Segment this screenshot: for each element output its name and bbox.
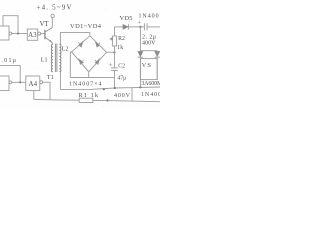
diode VD3 (bottom-left edge) [79, 59, 84, 65]
diode VD4 (bottom-right edge) [95, 59, 100, 65]
bottom bus [60, 87, 160, 90]
svg-text:1N4007: 1N4007 [141, 92, 160, 98]
svg-text:1N4007: 1N4007 [139, 14, 161, 20]
svg-text:+4. 5~9V: +4. 5~9V [37, 4, 72, 12]
svg-text:A4: A4 [29, 80, 38, 88]
svg-text:T1: T1 [47, 74, 54, 81]
svg-text:*: * [109, 36, 113, 45]
resistor R2 [112, 36, 116, 46]
gate A4 [26, 76, 43, 91]
node J6 (bus x140) [139, 86, 141, 88]
wire VS left branch upper [139, 27, 141, 51]
wire A2 output to A4 input [12, 81, 26, 83]
svg-text:3A600M: 3A600M [141, 81, 160, 87]
capacitor C2 [111, 68, 118, 71]
svg-text:VS: VS [142, 62, 152, 69]
wire R2 bottom to C2 [114, 52, 116, 67]
transformer core [55, 44, 57, 72]
svg-text:R1 1k: R1 1k [79, 92, 99, 99]
wire A3 output to VT base [41, 33, 45, 35]
thyristor VS box [140, 59, 157, 80]
svg-text:VD5: VD5 [120, 15, 133, 22]
bridge rectifier VD1-VD4 diamond [72, 36, 107, 72]
wire A4 ground pin down [33, 91, 35, 100]
svg-text:1N4007×4: 1N4007×4 [69, 81, 102, 87]
wire L2 top to bridge top vertex [60, 33, 89, 44]
wire A4 output down to R1 rail [43, 82, 50, 100]
scan speckle noise [9, 8, 139, 107]
wire VD5 to C1 [128, 26, 144, 28]
wire VT collector to power terminal [51, 18, 53, 28]
wire VS left branch lower to bus [139, 57, 141, 87]
wire A1 output to A3 input [12, 33, 27, 35]
diode VD2 (top-right edge) [95, 42, 100, 48]
svg-text:+: + [109, 62, 113, 69]
capacitor C1 2.2u 400V [144, 23, 147, 30]
svg-text:47μ: 47μ [117, 75, 126, 81]
svg-text:+: + [138, 20, 142, 26]
svg-text:VD1~VD4: VD1~VD4 [70, 23, 102, 30]
wire VT emitter to L1 top [51, 43, 53, 45]
wire C2 bottom to bus [114, 70, 116, 88]
power terminal circle [51, 14, 54, 17]
node J5 (bus x114.5) [114, 87, 116, 89]
svg-text:2. 2μ: 2. 2μ [142, 35, 156, 41]
wire bridge bottom vertex down [88, 72, 90, 78]
wire bridge right vertex to R2 column [107, 51, 115, 53]
wire R2 column top corner [114, 46, 116, 52]
wire bridge left vertex down [70, 52, 71, 78]
svg-text:R2: R2 [118, 36, 125, 42]
gate A2 (partially cut at left edge) [0, 76, 12, 91]
wire R2 top to top rail corner [114, 27, 116, 36]
diode VD5 [123, 24, 128, 29]
wire bus jog to R1 rail [131, 88, 133, 102]
node J8 [19, 81, 21, 83]
diode VD6 (left branch) [138, 51, 143, 57]
top rail with VD5 [115, 26, 123, 28]
wire VS top connector [140, 50, 157, 52]
node J3 (VS branch from top rail) [139, 26, 141, 28]
node J1 [17, 32, 19, 34]
wire C1 to right edge [147, 26, 160, 28]
svg-text:400V: 400V [142, 41, 156, 47]
wire feedback row1 [3, 16, 18, 34]
node J2 (R2 column at y52) [113, 51, 115, 53]
svg-text:VT: VT [40, 20, 50, 28]
svg-text:L1: L1 [41, 56, 48, 63]
gate A1 (partially cut at left edge) [0, 26, 12, 40]
svg-text:400V: 400V [114, 93, 131, 99]
svg-text:1k: 1k [117, 45, 123, 51]
gate A3 [27, 29, 40, 40]
transformer T1 primary L1 [51, 44, 53, 72]
diode VD1 (top-left edge) [78, 41, 83, 47]
svg-text:L2: L2 [62, 46, 69, 53]
svg-text:C2: C2 [118, 64, 125, 70]
node J4 (bus x104) [103, 88, 105, 90]
wire L2 bottom to bottom bus [59, 72, 61, 90]
wire VS right branch [156, 51, 158, 80]
resistor R1 [79, 98, 93, 102]
transformer secondary L2 [59, 44, 61, 72]
transistor VT [45, 28, 52, 43]
diode VD7 (right branch) [155, 51, 160, 57]
wire feedback row2 to 0.01u cap (off frame) [0, 66, 20, 83]
wire trigger row y77 [70, 77, 114, 79]
R1 rail [34, 98, 79, 101]
node J7 (R1 rail x107.5) [106, 99, 108, 101]
svg-text:A3: A3 [28, 31, 37, 39]
